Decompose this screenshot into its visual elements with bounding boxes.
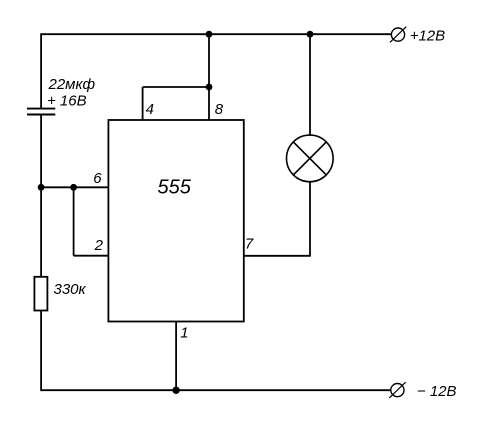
op-amp / timer IC U1 555 body bbox=[108, 120, 243, 322]
wire: from top rail down to lamp bbox=[309, 34, 311, 135]
svg-text:7: 7 bbox=[245, 235, 254, 252]
junction: left rail / pin 6 wire bbox=[38, 184, 45, 191]
svg-text:4: 4 bbox=[146, 101, 154, 118]
wire: bottom -12V rail bbox=[41, 389, 391, 391]
resistor 330к bbox=[34, 277, 47, 311]
svg-text:− 12В: − 12В bbox=[417, 383, 457, 400]
terminal -12V (circle) bbox=[391, 384, 404, 397]
wire: left vertical from rail to capacitor bbox=[40, 33, 42, 108]
lamp HL (circle) bbox=[287, 135, 334, 182]
wire: from resistor down to bottom rail bbox=[40, 311, 42, 392]
junction: lamp branch / top rail bbox=[307, 31, 314, 38]
svg-text:330к: 330к bbox=[54, 281, 87, 298]
wire: left vertical from capacitor to node junction bbox=[40, 115, 42, 189]
wire: from lamp down to pin 7 wire bbox=[309, 182, 311, 257]
terminal +12V (circle) bbox=[391, 28, 404, 41]
wire: pin 7 horizontal wire bbox=[244, 255, 310, 257]
svg-text:555: 555 bbox=[158, 177, 192, 199]
wire: pin 6 horizontal wire bbox=[41, 186, 108, 188]
wire: left vertical from node to resistor bbox=[40, 187, 42, 276]
wire: pin 1 vertical lead down to bottom rail bbox=[175, 322, 177, 391]
lamp HL (cross stroke 1) bbox=[293, 142, 326, 175]
svg-text:1: 1 bbox=[180, 325, 188, 342]
capacitor 22мкф 16В (bottom plate) bbox=[27, 114, 55, 116]
wire: pin 8 vertical lead up to top rail bbox=[208, 34, 210, 120]
wire: pin 4 vertical lead bbox=[142, 87, 144, 120]
junction: pin 8 lead / bracket bbox=[206, 84, 213, 91]
svg-text:6: 6 bbox=[93, 170, 102, 187]
junction: pin 8 lead / top rail bbox=[206, 31, 213, 38]
junction: pin 1 lead / bottom rail bbox=[172, 387, 179, 394]
svg-text:22мкф: 22мкф bbox=[48, 76, 96, 93]
wire: pin 2 horizontal wire bbox=[74, 255, 109, 257]
wire: top +12V rail bbox=[41, 33, 391, 35]
junction: pin 6 / pin 2 branch bbox=[70, 184, 77, 191]
svg-text:8: 8 bbox=[215, 101, 224, 118]
capacitor 22мкф 16В (top plate) bbox=[27, 108, 55, 110]
svg-text:2: 2 bbox=[94, 237, 104, 254]
wire: vertical branch from pin 6 node down to pin 2 bbox=[73, 187, 75, 255]
svg-text:+ 16В: + 16В bbox=[47, 93, 87, 110]
wire: bracket joining pin 4 and pin 8 bbox=[143, 86, 209, 88]
terminal -12V (slash) bbox=[389, 382, 405, 398]
terminal +12V (slash) bbox=[390, 27, 406, 43]
lamp HL (cross stroke 2) bbox=[293, 142, 326, 175]
svg-text:+12В: +12В bbox=[410, 28, 445, 45]
